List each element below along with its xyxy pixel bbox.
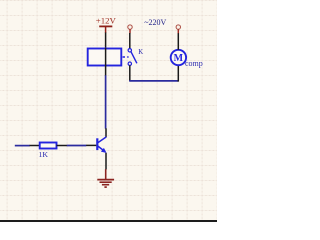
relay coil K1 xyxy=(88,49,122,66)
relay contact K xyxy=(128,49,143,66)
power symbol +12V xyxy=(96,16,117,33)
transistor Q1 xyxy=(86,128,107,169)
motor M comp xyxy=(171,50,203,68)
sheet background with grid xyxy=(0,0,217,222)
emitter pin xyxy=(105,153,107,170)
wire bottom run to motor xyxy=(129,80,178,82)
wire contact down xyxy=(129,65,131,81)
wire motor top pin xyxy=(177,33,179,50)
relay pin through body xyxy=(105,48,107,76)
emitter stroke with arrow xyxy=(98,146,105,151)
mechanical link (dashed) relay to contact xyxy=(123,56,129,58)
svg-text:~220V: ~220V xyxy=(144,18,166,27)
wire terminal to contact xyxy=(129,33,131,49)
terminal (right, mains) xyxy=(176,25,180,33)
window edge bottom xyxy=(0,220,217,222)
svg-text:comp: comp xyxy=(185,59,203,68)
resistor R 1K wiring left xyxy=(15,145,30,147)
svg-text:M: M xyxy=(174,53,184,64)
resistor right pin xyxy=(57,145,68,147)
svg-text:K: K xyxy=(138,49,143,56)
ground xyxy=(97,169,114,187)
svg-text:1K: 1K xyxy=(39,150,49,159)
base pin xyxy=(86,144,96,146)
wire +12V to relay coil (pin through body) xyxy=(105,33,107,49)
wire relay coil to collector xyxy=(105,75,107,128)
resistor left pin xyxy=(30,145,40,147)
resistor R1 1K body xyxy=(40,143,57,149)
wire resistor to base xyxy=(67,145,86,147)
collector stroke xyxy=(98,137,107,143)
wire motor bottom pin xyxy=(177,65,179,82)
base bar xyxy=(96,138,98,150)
svg-text:+12V: +12V xyxy=(96,16,117,26)
collector pin xyxy=(105,128,107,137)
terminal (left, mains) xyxy=(128,25,132,33)
